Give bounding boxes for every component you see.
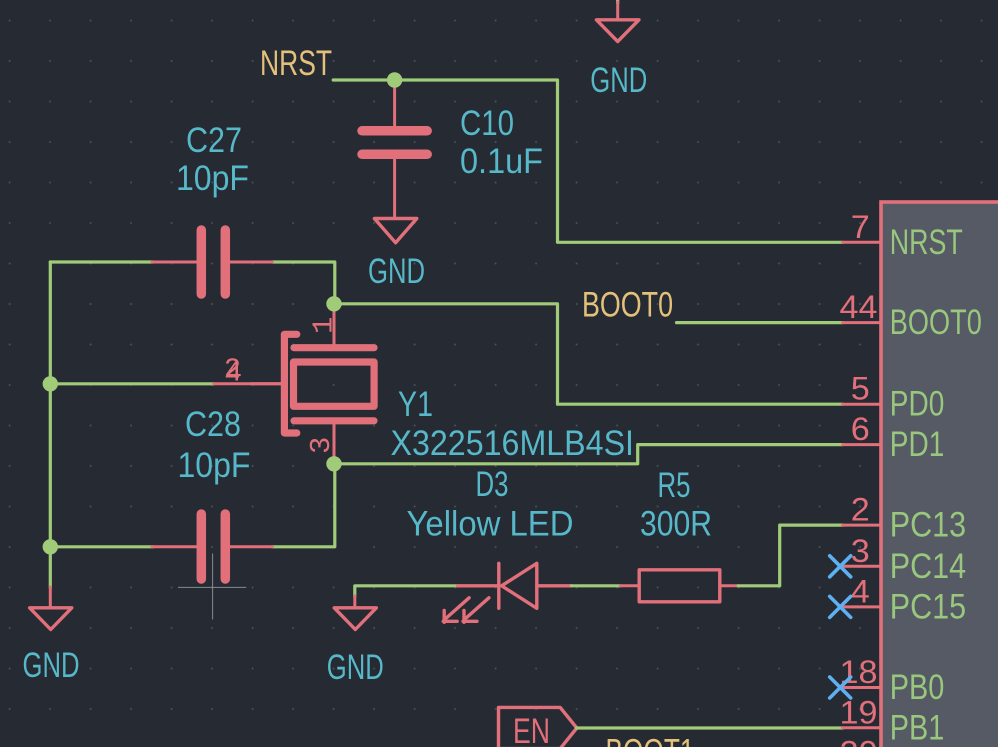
pin 2 PC13	[843, 492, 967, 545]
wire left rail	[49, 262, 52, 588]
junction left rail / C28	[43, 539, 58, 554]
pin 3 PC14	[843, 533, 967, 586]
LED D3	[443, 563, 571, 622]
svg-text:3: 3	[305, 437, 338, 454]
pin 5 PD0	[843, 371, 945, 424]
svg-text:GND: GND	[23, 646, 80, 685]
ground below C10	[374, 219, 416, 243]
wire stub top ground	[616, 0, 619, 3]
wire crystal pin3 to C28	[272, 464, 335, 547]
wire EN to pin 19 PB1	[577, 726, 843, 729]
pin 18 PB0	[840, 654, 945, 707]
svg-text:20: 20	[840, 735, 878, 747]
ground top	[596, 2, 639, 42]
svg-text:Yellow LED: Yellow LED	[407, 505, 574, 544]
hierarchical label EN	[499, 707, 577, 747]
svg-text:C10: C10	[460, 104, 514, 143]
svg-text:1: 1	[308, 317, 341, 334]
pin 6 PD1	[843, 411, 945, 464]
svg-text:BOOT1: BOOT1	[606, 733, 695, 747]
no-connect pin 3	[830, 556, 851, 577]
svg-text:0.1uF: 0.1uF	[460, 142, 543, 181]
svg-text:PB1: PB1	[890, 708, 945, 747]
capacitor C27	[152, 230, 272, 294]
wire NRST net to pin 7	[333, 80, 842, 242]
svg-text:5: 5	[851, 371, 870, 407]
svg-text:10pF: 10pF	[176, 159, 249, 198]
wire crystal pin3 net to pin 6 PD1	[334, 445, 843, 464]
svg-text:PC13: PC13	[890, 506, 966, 545]
pin 7 NRST	[843, 209, 963, 262]
svg-text:7: 7	[851, 209, 870, 245]
svg-text:PC14: PC14	[890, 547, 966, 586]
junction crystal pin 1	[326, 296, 341, 311]
wire C27 right to crystal pin1	[272, 262, 335, 304]
pin 19 PB1	[840, 694, 945, 747]
wire crystal pin1 net to pin 5 PD0	[334, 304, 843, 404]
svg-text:10pF: 10pF	[178, 446, 251, 485]
svg-text:PC15: PC15	[890, 587, 966, 626]
svg-text:X322516MLB4SI: X322516MLB4SI	[391, 424, 635, 463]
wire crystal pin 2	[50, 382, 213, 385]
capacitor C10	[362, 81, 427, 218]
no-connect pin 18	[830, 677, 851, 698]
svg-text:NRST: NRST	[260, 44, 332, 83]
IC U1 body	[881, 202, 998, 747]
svg-text:PB0: PB0	[890, 668, 945, 707]
wire LED to R5	[572, 584, 621, 587]
svg-text:19: 19	[840, 694, 878, 730]
svg-text:GND: GND	[368, 252, 425, 291]
svg-text:GND: GND	[327, 648, 384, 687]
crosshair cursor	[178, 554, 246, 620]
svg-text:GND: GND	[590, 61, 647, 100]
wire C27 left	[50, 260, 153, 263]
crystal Y1	[214, 304, 374, 464]
svg-text:PD0: PD0	[890, 385, 945, 424]
svg-text:C27: C27	[186, 121, 242, 160]
svg-text:6: 6	[851, 411, 870, 447]
pin 44 BOOT0	[840, 289, 982, 342]
svg-text:BOOT0: BOOT0	[582, 286, 673, 325]
ground bottom left	[30, 587, 72, 630]
svg-text:R5: R5	[658, 466, 691, 505]
wire BOOT0 to pin 44	[677, 321, 843, 324]
svg-text:3: 3	[851, 533, 870, 569]
svg-text:Y1: Y1	[398, 385, 433, 424]
no-connect pin 4	[830, 596, 851, 617]
ground at LED	[334, 596, 376, 630]
svg-text:NRST: NRST	[890, 223, 963, 262]
wire LED cathode to GND	[355, 586, 458, 597]
pin 4 PC15	[843, 573, 967, 626]
svg-text:4: 4	[225, 357, 242, 390]
svg-text:4: 4	[851, 573, 870, 609]
wire C28 left	[50, 545, 153, 548]
junction NRST/C10	[387, 72, 402, 87]
capacitor C28	[152, 514, 272, 579]
svg-text:D3: D3	[476, 465, 509, 504]
resistor R5	[621, 570, 739, 602]
svg-text:44: 44	[840, 289, 878, 325]
wire R5 to pin 2 PC13	[738, 525, 842, 586]
svg-text:C28: C28	[185, 405, 241, 444]
junction crystal pin 3	[326, 456, 341, 471]
svg-text:300R: 300R	[640, 505, 712, 544]
junction left rail / crystal pin 2	[43, 376, 58, 391]
svg-text:BOOT0: BOOT0	[890, 303, 982, 342]
svg-text:PD1: PD1	[890, 425, 945, 464]
svg-text:EN: EN	[513, 712, 550, 747]
svg-text:2: 2	[851, 492, 870, 528]
